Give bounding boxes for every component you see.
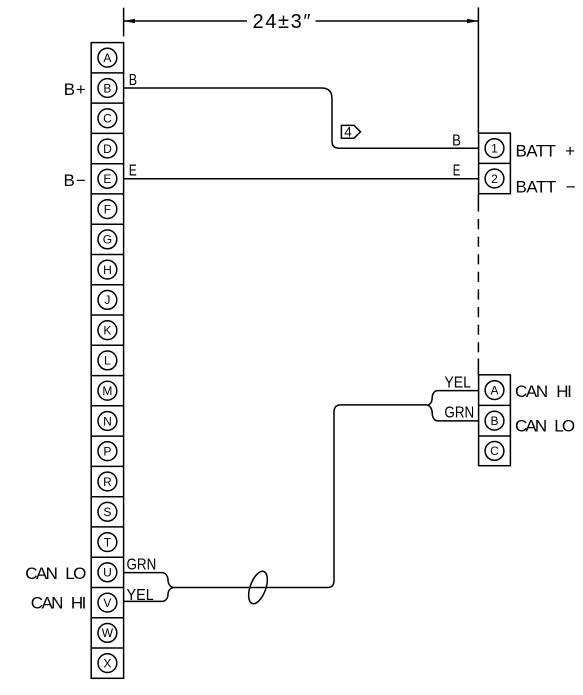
svg-text:B: B bbox=[103, 81, 111, 95]
svg-text:B: B bbox=[129, 72, 137, 89]
svg-text:CAN HI: CAN HI bbox=[31, 594, 87, 613]
pin F bbox=[98, 200, 117, 219]
pin H bbox=[98, 260, 117, 279]
pin C bbox=[485, 442, 504, 461]
svg-text:B+: B+ bbox=[64, 80, 86, 99]
svg-text:E: E bbox=[103, 172, 111, 186]
svg-text:E: E bbox=[453, 163, 461, 180]
pin K bbox=[98, 321, 117, 340]
svg-text:H: H bbox=[103, 263, 112, 277]
wire GRN from pin U bbox=[124, 573, 174, 588]
dimension 24±3" bbox=[124, 7, 479, 133]
wire E : pin E to BATT pin 2 bbox=[124, 178, 479, 180]
pin W bbox=[98, 624, 117, 643]
pin U bbox=[98, 563, 117, 582]
wire B+ : pin B to BATT pin 1 bbox=[124, 88, 479, 148]
svg-text:F: F bbox=[104, 202, 111, 216]
svg-text:C: C bbox=[103, 112, 112, 126]
pin B bbox=[485, 411, 504, 430]
pin V bbox=[98, 593, 117, 612]
svg-text:J: J bbox=[104, 293, 110, 307]
pin D bbox=[98, 139, 117, 158]
svg-text:BATT −: BATT − bbox=[516, 178, 576, 197]
svg-text:E: E bbox=[129, 163, 137, 180]
twist symbol (ellipse) bbox=[245, 569, 271, 606]
pin X bbox=[98, 654, 117, 673]
svg-text:N: N bbox=[103, 414, 112, 428]
connector J3 (mid right, CAN) bbox=[479, 375, 511, 466]
wire YEL from pin V bbox=[124, 588, 174, 602]
svg-text:YEL: YEL bbox=[127, 587, 154, 604]
svg-text:BATT +: BATT + bbox=[516, 141, 576, 160]
pin T bbox=[98, 533, 117, 552]
svg-text:C: C bbox=[490, 444, 499, 458]
pin P bbox=[98, 442, 117, 461]
svg-text:CAN HI: CAN HI bbox=[515, 382, 572, 401]
dashed line (hidden wire) between BATT and CAN connectors bbox=[477, 194, 479, 212]
pin A bbox=[485, 381, 504, 400]
svg-text:GRN: GRN bbox=[444, 405, 474, 422]
svg-text:V: V bbox=[103, 596, 111, 610]
pin 1 bbox=[485, 139, 504, 158]
svg-text:A: A bbox=[103, 51, 111, 65]
svg-text:CAN LO: CAN LO bbox=[515, 417, 575, 436]
svg-text:R: R bbox=[103, 475, 112, 489]
svg-text:P: P bbox=[103, 445, 111, 459]
svg-text:M: M bbox=[102, 384, 112, 398]
connector J1 (left, pins A-X) bbox=[91, 43, 123, 679]
svg-text:K: K bbox=[103, 324, 111, 338]
pin C bbox=[98, 109, 117, 128]
svg-text:S: S bbox=[103, 505, 111, 519]
svg-text:T: T bbox=[104, 535, 112, 549]
pin N bbox=[98, 412, 117, 431]
pin S bbox=[98, 502, 117, 521]
pin A bbox=[98, 48, 117, 67]
svg-text:1: 1 bbox=[491, 142, 498, 156]
svg-text:B: B bbox=[490, 414, 498, 428]
pin L bbox=[98, 351, 117, 370]
svg-text:D: D bbox=[103, 142, 112, 156]
svg-text:B: B bbox=[452, 133, 461, 150]
svg-text:GRN: GRN bbox=[127, 556, 157, 573]
wire GRN to CAN pin B bbox=[427, 405, 479, 421]
pin B bbox=[98, 79, 117, 98]
pin E bbox=[98, 169, 117, 188]
svg-text:4: 4 bbox=[344, 125, 352, 140]
svg-text:W: W bbox=[102, 626, 114, 640]
svg-text:A: A bbox=[490, 383, 498, 397]
pin 2 bbox=[485, 169, 504, 188]
svg-text:X: X bbox=[103, 656, 111, 670]
wire YEL to CAN pin A bbox=[427, 391, 479, 406]
pin R bbox=[98, 472, 117, 491]
twisted pair wire to CAN connector bbox=[174, 405, 427, 588]
flag 4 callout bbox=[341, 125, 360, 140]
svg-text:B−: B− bbox=[64, 171, 86, 190]
svg-text:2: 2 bbox=[491, 172, 498, 186]
svg-text:U: U bbox=[103, 566, 112, 580]
svg-text:G: G bbox=[103, 233, 112, 247]
pin G bbox=[98, 230, 117, 249]
svg-text:L: L bbox=[104, 354, 111, 368]
svg-text:CAN LO: CAN LO bbox=[25, 564, 86, 583]
pin J bbox=[98, 291, 117, 310]
pin M bbox=[98, 381, 117, 400]
svg-text:YEL: YEL bbox=[444, 375, 471, 392]
connector J2 (top right, BATT) bbox=[479, 133, 511, 194]
